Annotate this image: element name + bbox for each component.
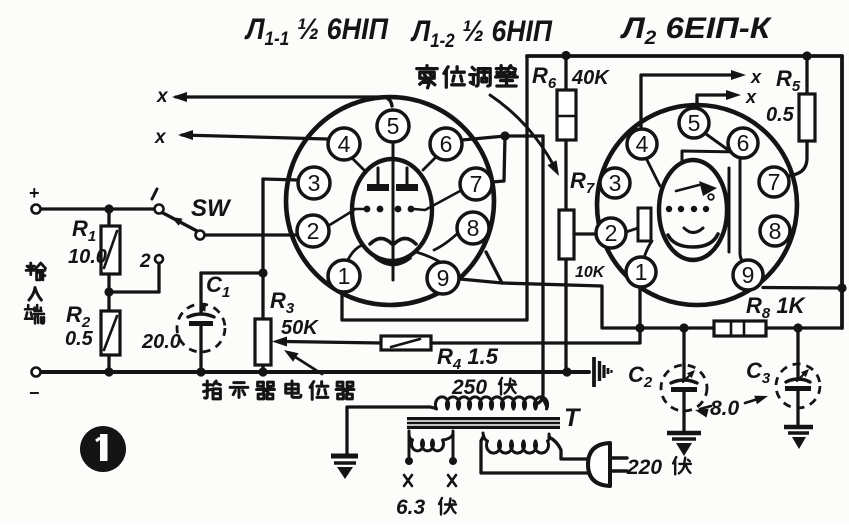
junction R6 top	[561, 51, 570, 60]
wire R8 right	[766, 326, 842, 329]
wire pin3 riser	[261, 179, 264, 319]
junction R7 bus	[562, 367, 571, 376]
chassis ground right of bus	[592, 357, 596, 387]
wire pin4 tube2 to X arrow	[641, 75, 733, 129]
terminal 1	[155, 205, 164, 214]
tube L2 inner bulb	[659, 160, 727, 260]
junction pin9 right	[837, 283, 846, 292]
wire R1 bottom junction	[107, 274, 110, 292]
svg-text:8.0: 8.0	[710, 397, 740, 420]
tube L2 pin4 lead	[646, 158, 660, 186]
junction pin1/R4	[635, 323, 644, 332]
C3 ground	[784, 425, 813, 430]
wire C1 branch	[201, 271, 263, 274]
pin 4	[328, 128, 360, 160]
tube L1 pin9 lead	[416, 252, 444, 264]
wire to terminal 2	[109, 290, 159, 293]
svg-text:x: x	[154, 127, 167, 148]
resistor R4	[381, 336, 431, 350]
wire pin5 tube2 to X arrow	[697, 95, 729, 108]
switch SW arm	[163, 213, 197, 231]
capacitor C2	[671, 380, 697, 383]
svg-text:0.5: 0.5	[766, 104, 795, 126]
svg-text:2: 2	[605, 220, 618, 246]
svg-text:Л2 6ЕІП-К: Л2 6ЕІП-К	[620, 12, 773, 49]
tube L1 center electrode	[392, 163, 395, 280]
resistor R2	[101, 311, 120, 355]
capacitor C3 lead	[796, 328, 799, 377]
svg-text:4: 4	[338, 131, 351, 157]
junction R5 top	[802, 51, 811, 60]
svg-text:SW: SW	[191, 195, 232, 222]
transformer primary 250V winding	[430, 397, 548, 409]
svg-text:7: 7	[470, 171, 483, 197]
pin 4	[627, 129, 657, 159]
6.3V terminal x marks	[404, 475, 412, 486]
svg-text:2: 2	[139, 251, 151, 272]
svg-text:0.5: 0.5	[65, 328, 94, 350]
label input chinese: ru	[29, 288, 41, 300]
wire deflection X arrow 2	[182, 135, 327, 139]
figure number 1 medallion	[80, 426, 126, 472]
svg-text:x: x	[745, 87, 757, 107]
pin 5	[679, 108, 709, 138]
junction C1 top	[258, 268, 267, 277]
pin 5	[377, 110, 409, 142]
wire R4 right to tube2 pin1	[431, 341, 637, 344]
wire transformer HV vertical x543	[536, 136, 543, 404]
tube L1 anode left	[377, 168, 380, 184]
svg-text:20.0: 20.0	[141, 331, 181, 353]
resistor R6	[557, 90, 576, 140]
wire R6 to R7	[564, 140, 567, 210]
wire pin9 tube2 to right edge	[763, 286, 842, 290]
svg-text:x: x	[156, 86, 169, 107]
pin 2	[297, 215, 329, 247]
svg-text:R4 1.5: R4 1.5	[437, 344, 499, 373]
label indicator-potentiometer char 5	[310, 382, 328, 400]
terminal -	[32, 368, 41, 377]
wire primary left to ground	[347, 407, 430, 453]
tube L1 grid leads	[354, 208, 363, 211]
pin 9	[733, 260, 763, 290]
R3 wiper arrow from R4 line	[285, 342, 381, 344]
capacitor C1	[188, 314, 214, 317]
transformer 220V winding	[483, 433, 549, 453]
tube L1 pin5 stem	[392, 142, 395, 162]
resistor R1 lead	[107, 209, 110, 226]
svg-text:8: 8	[467, 215, 480, 241]
transformer 6.3V winding	[408, 431, 411, 458]
pin 1	[328, 260, 360, 292]
pin 7	[460, 168, 492, 200]
tube L1 pin8 lead	[434, 233, 458, 250]
pin 6	[430, 128, 462, 160]
svg-text:3: 3	[609, 170, 622, 196]
C2 ground	[667, 431, 701, 436]
wire R2 to bus	[107, 355, 110, 372]
label input chinese: shu	[26, 263, 45, 280]
junction R1 top	[104, 204, 113, 213]
tube L1 inner bulb	[352, 159, 432, 261]
label 250V fu char	[499, 378, 516, 395]
svg-text:2: 2	[307, 218, 320, 244]
wire R7 wiper to pin2 tube2	[574, 232, 597, 235]
bottom bus wire	[40, 370, 589, 374]
tube L2 envelope circle	[597, 105, 797, 305]
pin 6	[728, 128, 758, 158]
label indicator-potentiometer char 4	[286, 381, 301, 397]
arrow 8.0 to C3	[745, 398, 761, 403]
terminal 2	[155, 255, 163, 263]
pin 3	[298, 167, 330, 199]
label indicator-potentiometer char 1	[204, 381, 221, 399]
wire plate supply vertical x527	[342, 57, 527, 320]
tube L1 pin4 stem	[350, 156, 366, 172]
junction C1 bus	[196, 367, 205, 376]
svg-text:R8 1K: R8 1K	[746, 293, 807, 322]
label zero-adjust char 1	[417, 66, 437, 88]
svg-text:50K: 50K	[281, 317, 319, 339]
svg-text:−: −	[29, 383, 40, 403]
pin 9	[427, 262, 459, 294]
pin 8	[457, 212, 489, 244]
resistor R5 lead	[805, 56, 808, 94]
zero adjust leader arrow	[490, 95, 554, 166]
pin 8	[760, 216, 790, 246]
wire R7 to bus	[564, 259, 567, 372]
C1 dashed circle	[177, 304, 225, 352]
label input chinese: duan	[25, 305, 44, 323]
label indicator-potentiometer char 2	[230, 383, 248, 398]
label indicator-potentiometer char 3	[257, 382, 275, 399]
resistor R2 lead	[107, 292, 110, 311]
C2 dashed circle	[661, 365, 707, 411]
svg-text:+: +	[29, 183, 40, 203]
transformer core	[407, 417, 560, 429]
resistor R8	[714, 321, 766, 336]
svg-text:7: 7	[768, 169, 781, 195]
6.3V terminal dots	[405, 457, 413, 465]
resistor R3	[255, 319, 271, 365]
wire top supply rail	[527, 54, 842, 58]
switch contact	[196, 231, 205, 240]
wire pin6-pin7 junction	[462, 136, 543, 140]
svg-text:4: 4	[636, 131, 649, 157]
tube L2 deflector bracket	[706, 134, 731, 152]
svg-text:1: 1	[635, 259, 648, 285]
wire R3 to bus	[261, 365, 264, 372]
svg-text:10.0: 10.0	[68, 246, 107, 268]
label zero-adjust char 4	[496, 66, 518, 86]
pin 2	[596, 218, 626, 248]
arrow 8.0 to C2	[700, 406, 711, 409]
junction R3 bus	[258, 367, 267, 376]
label indicator-potentiometer char 6	[336, 382, 354, 399]
tube L2 pin2 lead	[626, 228, 638, 232]
svg-text:9: 9	[742, 262, 755, 288]
svg-text:40K: 40K	[571, 67, 610, 89]
svg-text:9: 9	[437, 265, 450, 291]
svg-text:250: 250	[451, 376, 487, 399]
wire right edge vertical	[840, 56, 844, 328]
svg-text:1: 1	[338, 263, 351, 289]
tube L2 grid dots	[666, 206, 672, 212]
terminal tick label	[152, 189, 157, 199]
C3 dashed circle	[776, 364, 820, 408]
capacitor C3	[786, 379, 810, 382]
pin 3	[600, 168, 630, 198]
svg-text:10K: 10K	[575, 264, 606, 281]
tube L1 pin1 lead	[347, 245, 362, 262]
label zero-adjust char 2	[444, 67, 464, 87]
tube L1 pin6 stem	[423, 156, 437, 170]
wire deflection X arrow 1	[176, 97, 392, 106]
svg-text:6.3: 6.3	[396, 496, 426, 519]
capacitor C2 lead	[682, 328, 685, 378]
pin 1	[626, 257, 656, 287]
tube L2 cathode	[668, 234, 718, 247]
label zero-adjust char 3	[470, 67, 490, 86]
tube L2 pin1 lead	[644, 241, 652, 258]
wire R5 to pin7 tube2	[789, 141, 807, 176]
svg-text:3: 3	[308, 170, 321, 196]
tube L1 grid dots	[364, 206, 371, 213]
junction R2 bus	[104, 367, 113, 376]
label 6.3V fu char	[439, 498, 456, 515]
junction C3	[793, 323, 802, 332]
tube L1 envelope circle	[286, 97, 494, 305]
resistor R1	[101, 226, 120, 274]
wire top input	[40, 207, 155, 210]
svg-text:x: x	[750, 67, 762, 87]
wire 220V winding to plug	[481, 437, 601, 473]
resistor R5	[799, 94, 815, 141]
tube L2 left electrode plate	[638, 208, 651, 241]
primary ground	[331, 454, 358, 459]
label 220V fu char	[673, 457, 691, 474]
wire switch to pin2 of tube1	[205, 233, 297, 236]
svg-text:5: 5	[688, 110, 701, 136]
resistor R6 lead	[564, 56, 567, 90]
tube L2 target wedge	[699, 181, 717, 196]
mains plug	[588, 443, 610, 486]
svg-text:6: 6	[440, 131, 453, 157]
svg-text:5: 5	[387, 113, 400, 139]
resistor R7	[559, 210, 574, 259]
svg-text:6: 6	[737, 130, 750, 156]
label leader arrow to R3	[289, 353, 322, 374]
wire pin8/pin9 to step	[486, 252, 502, 283]
tube L1 cathodes	[370, 239, 392, 245]
svg-text:220: 220	[626, 456, 662, 479]
terminal +	[32, 205, 41, 214]
junction C2	[679, 323, 688, 332]
tube L1 anode right	[406, 168, 409, 184]
pin 7	[759, 167, 789, 197]
svg-text:8: 8	[769, 218, 782, 244]
